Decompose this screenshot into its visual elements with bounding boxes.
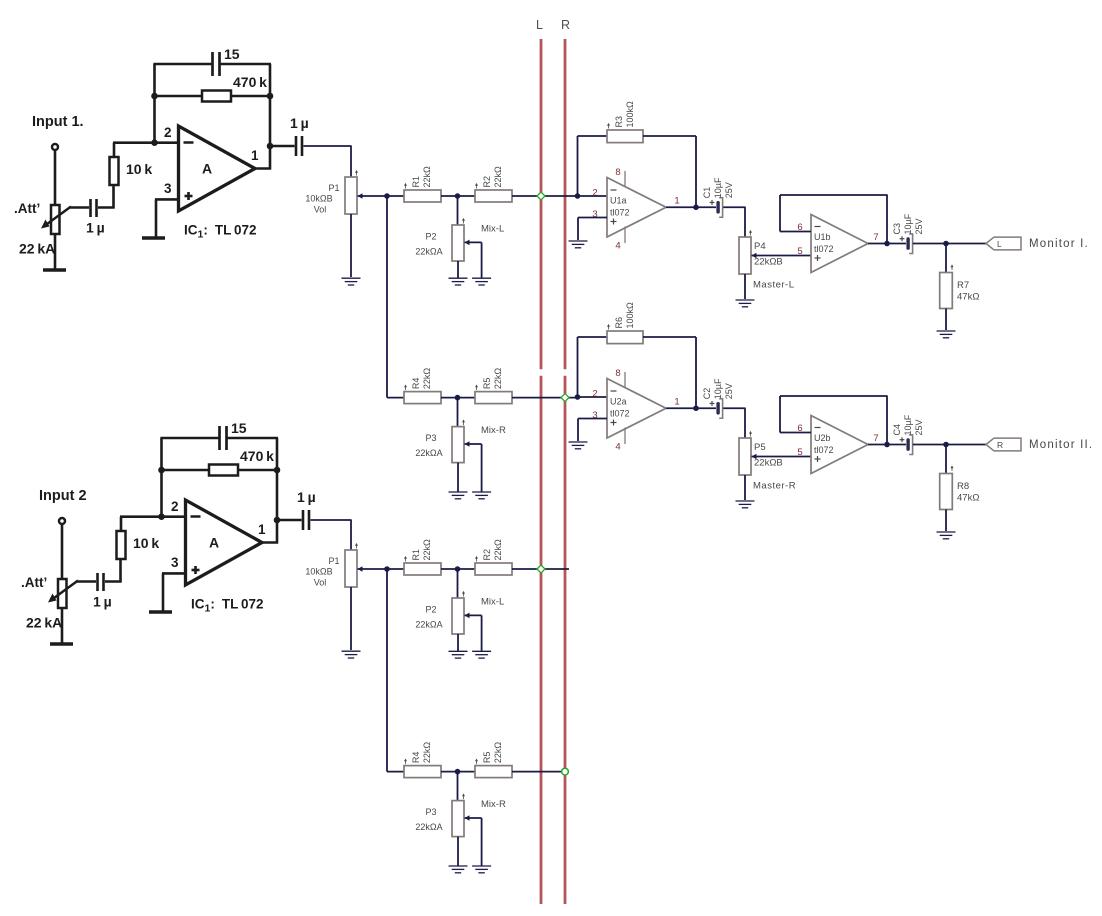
wire [387,397,404,399]
node R1-R2 junction [455,566,461,572]
svg-text:P3: P3 [425,433,436,443]
wire (channel 1) [221,63,272,66]
wire (feedback right) (channel 1) [269,64,272,170]
svg-text:25V: 25V [914,419,924,435]
U2b input markers and name [815,427,821,429]
wire to bus [512,568,569,570]
wire (output of U2b) [868,444,906,446]
capacitor 1u input (channel 2) [96,573,99,591]
node R4-R5 junction [455,395,461,401]
wiper of P3 [465,441,470,447]
svg-text:22kΩA: 22kΩA [415,822,442,832]
wire (channel 2) [77,580,96,583]
wire (feedback R6 left) [577,337,579,397]
svg-text:P5: P5 [754,442,766,453]
wiper of P1 [358,193,363,199]
wire (channel 1) [70,206,89,209]
svg-text:R2: R2 [482,176,492,188]
svg-text:22kΩ: 22kΩ [493,742,503,764]
node output junction (channel 1) [267,143,274,150]
svg-text:1: 1 [674,397,679,408]
capacitor C1 10uF [710,201,715,203]
net R bus line (red, lower segment) [564,376,567,904]
wire [387,771,404,773]
wire (feedback right) (channel 2) [276,438,279,544]
svg-text:Mix-R: Mix-R [481,799,506,810]
wire (channel 1) [54,151,57,206]
wire (channel 2) [61,525,64,580]
resistor R2 22k [475,563,512,575]
wire (pin 2) [578,195,608,197]
wire [913,444,986,446]
ground [449,650,468,652]
U1b input markers and name [815,226,821,228]
capacitor C4 10uF [900,439,905,441]
node feedback junction [884,241,890,247]
node output junction [943,442,949,448]
ground [472,277,491,279]
resistor R8 47k [940,474,953,510]
svg-text:22kΩ: 22kΩ [422,166,432,188]
wire [643,336,696,338]
svg-text:C3: C3 [892,223,902,235]
resistor R3 100k [607,130,643,143]
wire (channel 1) [98,206,115,209]
node feedback-input junction (channel 1) [151,139,158,146]
resistor R4 22k [404,766,441,778]
svg-text:47kΩ: 47kΩ [957,292,979,303]
svg-text:R4: R4 [411,752,421,764]
capacitor 15 (channel 2) [218,426,221,450]
node R bus tap (row 4) [562,768,569,775]
svg-text:Monitor I.: Monitor I. [1029,238,1089,250]
svg-text:10 k: 10 k [133,535,159,551]
wire (channel 1) [54,234,57,270]
svg-text:10µF: 10µF [713,378,723,399]
net L bus line (red, lower segment) [540,376,543,904]
wire (channel 2 branch to Mix-R row) [386,569,388,772]
node L bus tap (row 3) [537,565,545,573]
resistor R1 22k [404,190,441,202]
node output junction [943,241,949,247]
ground [736,500,755,502]
wire [723,407,745,409]
svg-text:8: 8 [615,368,620,379]
wiper of P3 [465,815,470,821]
wire (channel 2) [277,519,302,522]
wiper arrow of Att pot (channel 2) [52,581,78,600]
wire [387,195,404,197]
node P1 wiper junction [384,566,390,572]
capacitor 1u output (channel 2) [302,510,305,530]
svg-text:tl072: tl072 [814,244,834,254]
wire [350,214,352,277]
svg-text:22kΩ: 22kΩ [422,539,432,561]
ground [736,299,755,301]
svg-text:Vol: Vol [314,578,327,588]
svg-text:R7: R7 [957,280,969,291]
svg-text:47kΩ: 47kΩ [957,493,979,504]
wire (feedback R3 left) [577,136,579,196]
svg-text:R3: R3 [614,116,624,128]
ground [472,865,491,867]
node pin2 junction U1a [575,193,581,199]
svg-text:10kΩB: 10kΩB [305,194,332,204]
node R4-R5 junction [455,769,461,775]
svg-text:7: 7 [873,232,878,243]
svg-text:R8: R8 [957,481,969,492]
ground [472,650,491,652]
node R1-R2 junction [455,193,461,199]
svg-text:470 k: 470 k [233,74,267,90]
wire to P2 [457,569,459,598]
wire to R7 [945,244,947,273]
svg-text:R2: R2 [482,549,492,561]
svg-text:25V: 25V [724,182,734,198]
ground [449,865,468,867]
wire (channel 2) [160,437,218,440]
node (channel 2) [158,467,165,474]
potentiometer P5 22kB [739,438,751,475]
non-inverting input marker (channel 1) [185,195,193,198]
svg-text:R6: R6 [614,317,624,329]
wire [311,519,352,521]
svg-text:U2a: U2a [610,397,627,407]
ground [342,650,361,652]
svg-text:P2: P2 [425,605,436,615]
ground (channel 2) [149,610,172,614]
wire [945,309,947,331]
svg-text:1: 1 [251,148,259,163]
wire (pin 3) (channel 1) [155,198,178,201]
op-amp IC1 A (channel 1) [179,126,256,211]
op-amp U2b tl072 [811,416,868,474]
resistor 470k (channel 2) [209,465,238,476]
capacitor 15 (channel 1) [211,52,214,76]
wire (pin 3) [578,418,607,420]
svg-text:22 kA: 22 kA [26,615,62,631]
ground [342,277,361,279]
svg-text:3: 3 [164,181,172,196]
svg-text:Input 1.: Input 1. [32,114,84,130]
svg-text:1 µ: 1 µ [297,489,316,505]
svg-text:22kΩ: 22kΩ [493,368,503,390]
potentiometer P1 10k [345,177,357,214]
node R bus tap (row 2) [561,394,569,402]
svg-text:10kΩB: 10kΩB [305,567,332,577]
wiper of P2 [465,240,470,246]
wire (channel 1) [270,145,295,148]
resistor R1 22k [404,563,441,575]
wire [945,510,947,532]
wire (output of U1b) [868,243,906,245]
svg-text:4: 4 [615,442,620,453]
pin 8 stub [624,372,626,388]
potentiometer P1 10k [345,550,357,587]
svg-text:3: 3 [171,555,179,570]
svg-text:10 k: 10 k [126,161,152,177]
svg-text:10µF: 10µF [903,414,913,435]
resistor R5 22k [475,392,512,404]
pin 4 stub [624,428,626,445]
wire to R8 [945,445,947,474]
ground [472,491,491,493]
wire [457,634,459,651]
wire (channel 2) [120,517,123,531]
wiper of P4 (pin 5 wire) [752,253,757,259]
wire to P2 [457,196,459,225]
inverting input marker (channel 1) [184,141,194,144]
svg-text:2: 2 [592,188,597,199]
capacitor 1u output (channel 1) [295,136,298,156]
wire to bus [512,195,577,197]
U1a input markers and name [611,189,617,191]
wire to bus [512,397,577,399]
wire [441,397,475,399]
svg-text:22kΩA: 22kΩA [415,247,442,257]
svg-text:P1: P1 [328,556,339,566]
svg-text:P3: P3 [425,807,436,817]
svg-text:4: 4 [615,241,620,252]
wire (output of U1a) [666,206,716,208]
wire [350,587,352,650]
node (channel 1) [151,93,158,100]
wire [441,568,475,570]
potentiometer P4 22kB [739,237,751,274]
ground [937,330,956,332]
svg-text:22kΩ: 22kΩ [493,166,503,188]
wire (channel 1 branch to Mix-R row) [386,196,388,398]
node feedback junction [884,442,890,448]
wire [744,274,746,299]
resistor 10k (channel 1) [110,157,119,185]
svg-text:Vol: Vol [314,205,327,215]
svg-text:25V: 25V [914,218,924,234]
ground [569,441,588,443]
svg-text:P1: P1 [328,183,339,193]
resistor R5 22k [475,766,512,778]
ground (channel 2) [50,642,73,646]
output tag R [986,438,1021,451]
wire (channel 1) [153,95,202,98]
resistor R2 22k [475,190,512,202]
potentiometer P2 22kA [452,225,464,261]
svg-text:R5: R5 [482,752,492,764]
wire (pin 3) [578,217,607,219]
potentiometer 22kA Att (channel 2) [58,579,67,608]
potentiometer P3 22kA [452,427,464,463]
wire [744,475,746,500]
output tag L [986,237,1021,250]
capacitor 1u input (channel 1) [89,199,92,217]
svg-text:Monitor II.: Monitor II. [1029,439,1093,451]
svg-text:Master-R: Master-R [753,481,796,492]
wire [441,195,475,197]
capacitor C2 10uF [710,402,715,404]
wiper of P5 (pin 5 wire) [752,454,757,460]
svg-text:A: A [202,161,212,177]
svg-text:22kΩA: 22kΩA [415,448,442,458]
wire to P3 [457,772,459,801]
op-amp U1b tl072 [811,215,868,273]
svg-text:Input 2: Input 2 [39,488,87,504]
ground [937,531,956,533]
resistor 10k (channel 2) [117,531,126,559]
svg-text:C2: C2 [702,388,712,400]
wire (channel 1) [231,95,271,98]
svg-text:U2b: U2b [814,433,831,443]
svg-text:1: 1 [258,522,266,537]
net L bus line (red, upper segment) [540,39,543,369]
wire (feedback U2b) [780,432,811,434]
svg-text:1 µ: 1 µ [86,220,105,236]
wire (channel 2) [238,469,278,472]
node pin2 junction U2a [575,394,581,400]
svg-text:L: L [536,18,543,32]
svg-text:25V: 25V [724,383,734,399]
node (channel 2) [274,467,281,474]
svg-text:22kΩ: 22kΩ [422,368,432,390]
svg-text:2: 2 [592,389,597,400]
svg-text:7: 7 [873,433,878,444]
wire (inverting input) (channel 1) [113,141,178,144]
wire [913,243,986,245]
node output junction (channel 2) [274,517,281,524]
wire (channel 2) [160,469,209,472]
potentiometer P3 22kA [452,801,464,837]
wire (channel 1) [153,63,211,66]
node R6 output junction [693,405,699,411]
svg-text:2: 2 [164,125,172,140]
potentiometer P2 22kA [452,598,464,634]
svg-text:15: 15 [224,46,240,62]
potentiometer 22kA Att (channel 1) [51,205,60,234]
node R3 output junction [693,204,699,210]
node feedback-input junction (channel 2) [158,513,165,520]
wire [304,145,352,147]
svg-text:470 k: 470 k [240,448,274,464]
svg-text:tl072: tl072 [610,208,630,218]
svg-text:P4: P4 [754,241,766,252]
svg-text:R1: R1 [411,176,421,188]
svg-text:22kΩ: 22kΩ [493,539,503,561]
pin 8 stub [624,171,626,187]
wire [643,135,696,137]
ground (channel 1) [142,236,165,240]
ground [569,240,588,242]
wire (output of U2a) [666,407,716,409]
svg-text:C1: C1 [702,187,712,199]
wire (feedback left) (channel 2) [160,438,163,517]
svg-text:1 µ: 1 µ [290,115,309,131]
wire [441,771,475,773]
svg-text:10µF: 10µF [903,213,913,234]
svg-text:A: A [209,535,219,551]
node L bus tap (row 1) [537,192,545,200]
wire (inverting input) (channel 2) [120,515,185,518]
svg-text:R4: R4 [411,378,421,390]
svg-text:1 µ: 1 µ [93,594,112,610]
svg-text:Mix-R: Mix-R [481,425,506,436]
svg-text:C4: C4 [892,424,902,436]
svg-text:Mix-L: Mix-L [481,223,504,234]
wire (feedback left) (channel 1) [153,64,156,143]
svg-text:22 kA: 22 kA [19,241,55,257]
svg-text:22kΩB: 22kΩB [754,458,783,469]
svg-text:.Att’: .Att’ [21,575,47,590]
resistor 470k (channel 1) [202,91,231,102]
inverting input marker (channel 2) [191,515,201,518]
svg-text:1: 1 [674,196,679,207]
pin 4 stub [624,227,626,244]
svg-text:tl072: tl072 [814,445,834,455]
input terminal (channel 1) [52,144,58,150]
U2a input markers and name [611,390,617,392]
svg-text:U1a: U1a [610,196,627,206]
svg-text:tl072: tl072 [610,409,630,419]
svg-text:8: 8 [615,167,620,178]
wire (channel 2) [228,437,279,440]
svg-text:P2: P2 [425,232,436,242]
net R bus line (red, upper segment) [564,39,567,369]
svg-text:.Att’: .Att’ [14,201,40,216]
wire (pin 2) [578,396,608,398]
svg-text:22kΩ: 22kΩ [422,742,432,764]
op-amp U2a tl072 [607,379,666,439]
input terminal (channel 2) [59,518,65,524]
svg-text:10µF: 10µF [713,177,723,198]
svg-text:R1: R1 [411,549,421,561]
wire to bus [512,771,565,773]
wiper of P2 [465,613,470,619]
svg-text:2: 2 [171,499,179,514]
ground [449,491,468,493]
svg-text:Mix-L: Mix-L [481,596,504,607]
node (channel 1) [267,93,274,100]
ground [449,277,468,279]
wire to P3 [457,398,459,427]
svg-text:5: 5 [797,246,802,257]
resistor R6 100k [607,331,643,344]
resistor R4 22k [404,392,441,404]
svg-text:R5: R5 [482,378,492,390]
svg-text:L: L [997,239,1002,249]
wire (pin 3) (channel 2) [162,572,185,575]
op-amp U1a tl072 [607,178,666,238]
non-inverting input marker (channel 2) [192,569,200,572]
svg-text:Master-L: Master-L [753,280,794,291]
wire [457,837,459,866]
svg-text:R: R [997,440,1003,450]
wiper arrow of Att pot (channel 1) [45,207,71,226]
op-amp IC1 A (channel 2) [186,500,263,585]
wire [457,261,459,278]
resistor R7 47k [940,273,953,309]
svg-text:15: 15 [231,420,247,436]
wire (feedback U1b) [780,231,811,233]
node P1 wiper junction [384,193,390,199]
svg-text:100kΩ: 100kΩ [625,302,635,329]
wire [723,206,745,208]
capacitor C3 10uF [900,238,905,240]
wire [387,568,404,570]
wire (channel 2) [105,580,122,583]
ground (channel 1) [43,268,66,272]
svg-text:100kΩ: 100kΩ [625,101,635,128]
wire (channel 2) [61,608,64,644]
svg-text:U1b: U1b [814,232,831,242]
svg-text:22kΩB: 22kΩB [754,257,783,268]
